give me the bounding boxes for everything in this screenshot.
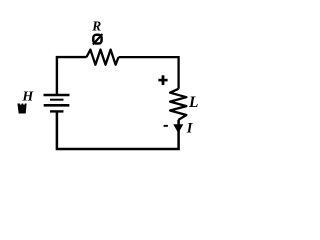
wire top right segment + right vertical top stub <box>119 57 179 89</box>
battery source plate short bottom <box>50 110 64 112</box>
svg-text:I: I <box>186 120 194 136</box>
arrowhead current I direction (down) <box>173 124 183 133</box>
label V source unit blob <box>17 104 26 114</box>
label plus sign <box>158 79 167 82</box>
battery source plate long <box>44 104 70 107</box>
battery source plate short <box>50 99 64 101</box>
label minus sign <box>164 125 168 127</box>
inductor L zigzag <box>170 89 186 120</box>
svg-text:H: H <box>21 90 34 105</box>
battery source plate long top <box>44 94 70 96</box>
svg-text:L: L <box>188 94 198 111</box>
wire right vertical bottom + bottom wire + left vertical bottom <box>57 112 179 149</box>
label resistor value O-slash glyph <box>93 35 101 44</box>
wire left vertical top + top wire left segment <box>57 57 87 94</box>
resistor R zigzag <box>87 50 119 65</box>
svg-text:R: R <box>91 18 101 33</box>
